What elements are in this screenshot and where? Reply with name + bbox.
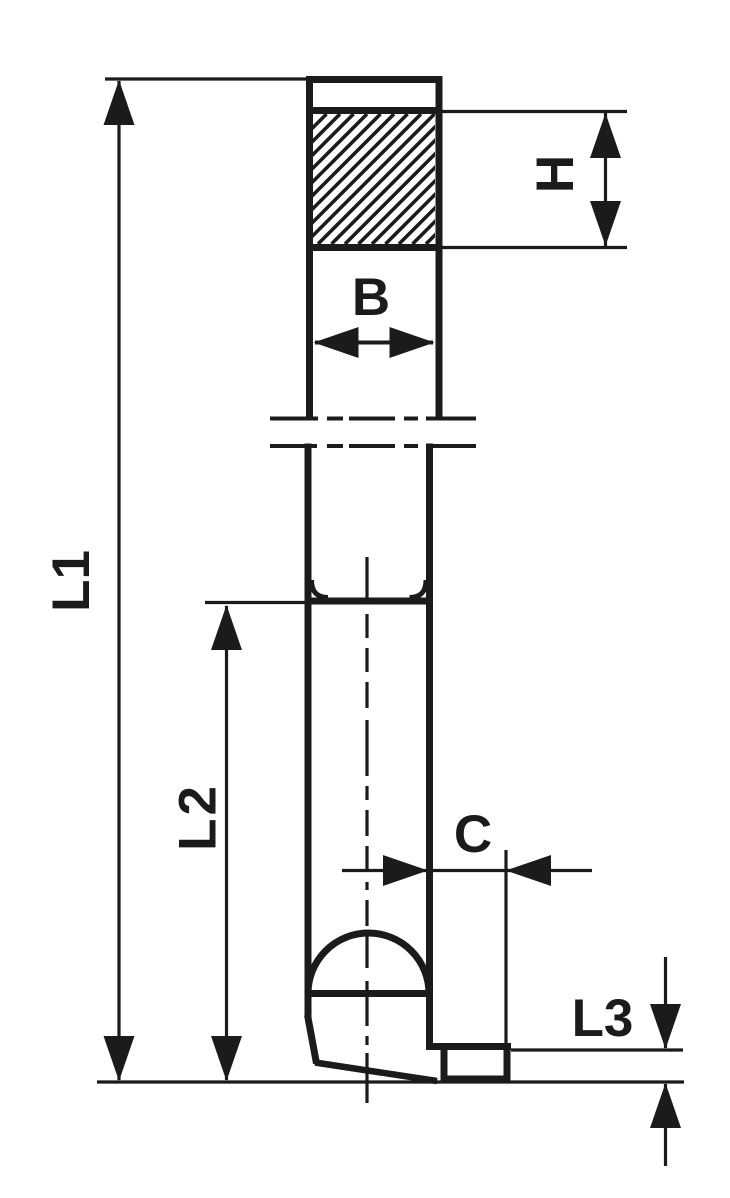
L2 top extension line bbox=[205, 601, 310, 604]
left chamfer edge bbox=[308, 1015, 317, 1064]
L2 down arrow bbox=[211, 1036, 242, 1081]
C left-pointing arrow bbox=[506, 855, 551, 886]
B dimension line bbox=[315, 341, 433, 345]
dome chord line bbox=[306, 990, 431, 997]
hatched cross-section fill bbox=[197, 114, 570, 244]
L3 lower dimension line bbox=[664, 1084, 667, 1166]
H down arrow bbox=[590, 201, 621, 246]
C right-pointing arrow bbox=[383, 855, 428, 886]
B right arrow bbox=[390, 327, 435, 358]
L3 down arrow bbox=[650, 1004, 681, 1049]
L1 up arrow bbox=[104, 80, 135, 125]
L1 dimension line bbox=[117, 81, 120, 1080]
tool head top edge bbox=[306, 76, 443, 83]
L1 down arrow bbox=[104, 1036, 135, 1081]
foot outline bbox=[444, 1047, 507, 1080]
tool head left edge bbox=[306, 76, 313, 420]
centerline axis dash-dot bbox=[365, 557, 368, 1103]
svg-text:L2: L2 bbox=[169, 783, 228, 851]
shoulder left fillet bbox=[312, 580, 329, 598]
svg-text:B: B bbox=[352, 268, 390, 327]
right step line bbox=[426, 1043, 511, 1050]
C dimension line bbox=[342, 869, 592, 872]
tool head right edge bbox=[436, 76, 443, 420]
L3 top extension line bbox=[511, 1048, 683, 1051]
blade bottom edge bbox=[315, 1063, 437, 1082]
dome arc bbox=[308, 933, 429, 994]
hatch section bottom border bbox=[306, 244, 443, 251]
H top extension line bbox=[440, 110, 627, 113]
svg-text:C: C bbox=[454, 805, 492, 864]
L3 upper dimension line bbox=[664, 957, 667, 1048]
L3 up arrow bbox=[650, 1083, 681, 1128]
lower shank left edge bbox=[305, 444, 312, 1019]
shoulder joint line bbox=[308, 598, 430, 605]
svg-text:L3: L3 bbox=[572, 989, 634, 1048]
H up arrow bbox=[590, 113, 621, 158]
B left arrow bbox=[314, 327, 359, 358]
shoulder right fillet bbox=[410, 580, 427, 598]
lower break line bbox=[270, 444, 476, 448]
upper break line bbox=[270, 417, 476, 421]
lower shank right edge bbox=[426, 444, 433, 1048]
bottom baseline extension bbox=[97, 1080, 684, 1083]
L1 top extension line bbox=[105, 77, 308, 80]
H bottom extension line bbox=[440, 246, 627, 249]
H dimension line bbox=[604, 113, 607, 246]
svg-text:L1: L1 bbox=[42, 550, 101, 612]
hatch section top border bbox=[306, 107, 443, 114]
svg-text:H: H bbox=[526, 155, 585, 193]
C extension tick line bbox=[504, 850, 507, 1045]
L2 dimension line bbox=[225, 606, 228, 1080]
L2 up arrow bbox=[211, 605, 242, 650]
